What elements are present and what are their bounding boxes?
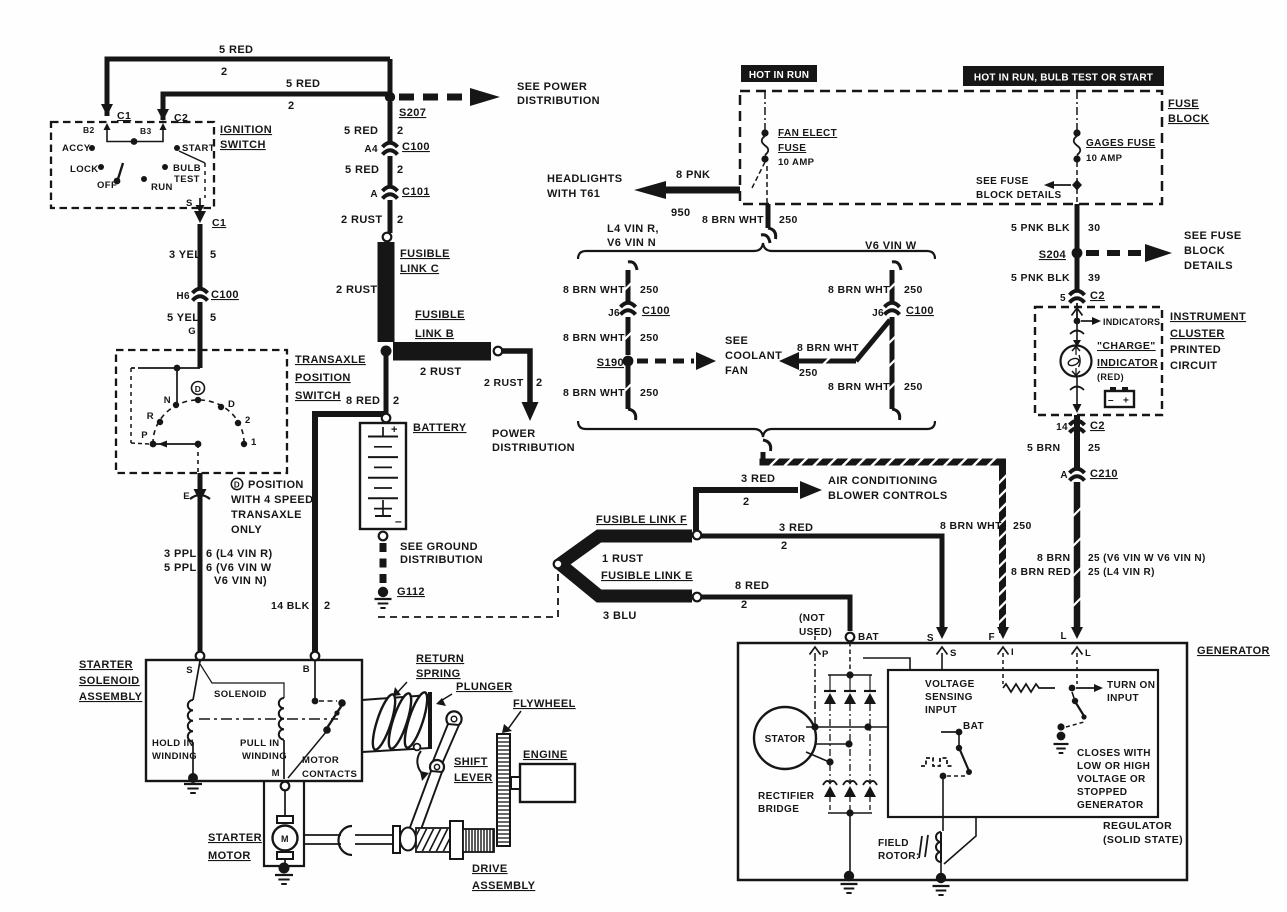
rectifier diodes bottom row [823,781,837,785]
arrow AC blower [800,481,822,499]
svg-text:BLOCK DETAILS: BLOCK DETAILS [976,190,1062,201]
svg-text:RETURN: RETURN [416,653,464,665]
connector 14 C2 [1070,421,1085,425]
svg-text:BRIDGE: BRIDGE [758,804,799,815]
svg-text:+: + [1123,396,1129,407]
tag HOT IN RUN [741,65,817,82]
svg-text:2: 2 [536,377,543,389]
svg-text:TRANSAXLE: TRANSAXLE [231,509,302,521]
svg-text:HEADLIGHTS: HEADLIGHTS [547,173,623,185]
svg-text:C210: C210 [1090,468,1118,480]
svg-text:I: I [1011,647,1014,658]
plunger [428,692,432,749]
svg-text:SPRING: SPRING [416,668,461,680]
svg-text:1: 1 [251,437,257,448]
ground G112 [378,587,388,597]
wire dashed to power distribution [399,94,468,101]
wire break hooks at fuse drop [761,235,770,243]
svg-text:FIELD: FIELD [878,838,909,849]
arrow headlights [634,181,666,199]
starter motor enclosure [264,781,304,866]
svg-text:H6: H6 [176,291,190,302]
svg-text:MOTOR: MOTOR [302,755,339,766]
rotor arc (dashed) [153,400,244,444]
tag HOT IN RUN BULB TEST OR START [963,66,1164,86]
wire B to contact [314,661,316,699]
position P [150,441,157,448]
svg-text:5 RED: 5 RED [286,78,320,90]
junction dot on B2-B3 bracket [131,138,138,145]
wire 5 RED from ignition C2 to S207 (second run) [163,94,390,120]
splice S204 [1072,248,1083,259]
wire 5 RED from ignition C1 to S207 (top run) [107,59,390,116]
wire 8 BRN WHT (S190 down) [626,366,631,409]
svg-text:SEE FUSE: SEE FUSE [976,176,1029,187]
svg-text:2 RUST: 2 RUST [341,214,383,226]
wire 5 RED (C100 to C101) [388,156,393,188]
rotation arrow at pivot [417,751,424,775]
wire F dashed to resistor [1002,653,1004,684]
svg-text:STOPPED: STOPPED [1077,787,1127,798]
wire to charge lamp [1076,321,1078,345]
svg-text:IGNITION: IGNITION [220,124,272,136]
svg-text:C1: C1 [117,110,131,122]
svg-text:2: 2 [397,164,404,176]
eyelet fusible link C top [383,233,392,242]
svg-text:B3: B3 [140,126,152,136]
svg-text:2 RUST: 2 RUST [420,366,462,378]
svg-text:250: 250 [640,284,659,296]
position N [173,402,179,408]
wire 8 BRN to generator L [1074,482,1081,632]
terminal M eyelet [281,782,290,791]
wire regulator second leg to field [944,817,976,864]
wire battery ground (dashed) [380,543,387,585]
svg-text:BLOCK: BLOCK [1168,113,1209,125]
svg-text:WITH T61: WITH T61 [547,188,600,200]
arrow turn on input [1076,687,1094,689]
splice S190 [623,356,634,367]
svg-text:FUSE: FUSE [778,143,806,154]
terminal F of generator [997,627,1009,639]
svg-text:MOTOR: MOTOR [208,850,251,862]
svg-text:8 BRN WHT: 8 BRN WHT [828,381,890,393]
wire motor to ground [284,859,286,864]
svg-text:DISTRIBUTION: DISTRIBUTION [517,95,600,107]
wire into cluster [1076,303,1078,318]
wire to coolant fan (V6) with left arrow [779,352,799,370]
eyelet battery positive [382,414,391,423]
svg-text:2: 2 [324,600,331,612]
svg-text:INDICATORS: INDICATORS [1103,317,1160,327]
svg-text:2: 2 [397,125,404,137]
svg-text:HOLD IN: HOLD IN [152,738,194,749]
svg-text:FUSIBLE LINK F: FUSIBLE LINK F [596,514,687,526]
resistor (regulator) [1003,684,1055,692]
charge indicator lamp [1061,346,1092,377]
svg-text:250: 250 [779,214,798,226]
svg-text:INPUT: INPUT [925,705,957,716]
battery icon (cluster) [1105,391,1134,407]
svg-text:5 YEL: 5 YEL [167,312,199,324]
fusible link E [560,564,692,596]
svg-text:3 PPL: 3 PPL [164,548,197,560]
svg-text:C101: C101 [402,186,430,198]
svg-text:VOLTAGE: VOLTAGE [925,679,975,690]
svg-text:SEE FUSE: SEE FUSE [1184,230,1242,242]
svg-text:FAN: FAN [725,365,748,377]
svg-text:ONLY: ONLY [231,524,262,536]
svg-text:CLOSES WITH: CLOSES WITH [1077,748,1151,759]
junction L-node [1069,685,1076,692]
svg-text:SOLENOID: SOLENOID [214,689,267,700]
connector H6 C100 [193,289,208,293]
wire 5 PNK BLK (fuse to S204) [1075,204,1080,248]
svg-text:2 RUST: 2 RUST [336,284,378,296]
battery [360,423,406,529]
svg-text:8 BRN WHT: 8 BRN WHT [563,332,625,344]
svg-text:INSTRUMENT: INSTRUMENT [1170,311,1246,323]
terminal BAT eyelet [846,633,855,642]
svg-text:REGULATOR: REGULATOR [1103,820,1172,832]
connector J6 C100 (right) [885,303,900,307]
svg-text:SEE GROUND: SEE GROUND [400,541,478,553]
svg-text:250: 250 [904,284,923,296]
svg-text:3 RED: 3 RED [779,522,813,534]
fusible link B [393,342,491,361]
wire segment S207 riser [388,59,393,97]
svg-text:N: N [164,395,171,406]
svg-text:5 RED: 5 RED [345,164,379,176]
svg-text:ASSEMBLY: ASSEMBLY [472,880,536,892]
svg-text:ROTOR:: ROTOR: [878,851,920,862]
svg-text:8 BRN WHT: 8 BRN WHT [563,387,625,399]
svg-text:ASSEMBLY: ASSEMBLY [79,691,143,703]
wire P dash-dot to stator bus [814,653,816,724]
starter motor M [277,816,293,823]
svg-text:RUN: RUN [151,182,173,193]
starter solenoid assembly box [146,660,362,781]
svg-text:STARTER: STARTER [79,659,133,671]
svg-text:8 RED: 8 RED [735,580,769,592]
svg-text:DISTRIBUTION: DISTRIBUTION [492,442,575,454]
svg-text:S: S [186,665,193,676]
wire sense step into regulator top [863,658,910,669]
connector C1 (ignition output) [194,211,206,223]
svg-text:VOLTAGE OR: VOLTAGE OR [1077,774,1146,785]
svg-text:S190: S190 [597,357,624,369]
svg-text:ACCY: ACCY [62,143,91,154]
svg-text:BAT: BAT [858,632,879,643]
svg-text:5 RED: 5 RED [344,125,378,137]
svg-text:WINDING: WINDING [152,751,197,762]
svg-text:LINK C: LINK C [400,263,439,275]
svg-text:G112: G112 [397,586,425,598]
svg-text:TEST: TEST [174,174,200,185]
svg-text:250: 250 [640,387,659,399]
wire wiper P to output [153,443,198,445]
ground hold-in winding [188,773,198,783]
wire START to S terminal [179,151,205,163]
wire 5 BRN (C2 to C210) [1074,415,1080,468]
svg-text:2: 2 [393,395,400,407]
svg-text:COOLANT: COOLANT [725,350,782,362]
position D selected (circled) [192,382,205,395]
svg-text:TURN ON: TURN ON [1107,680,1155,691]
svg-text:P: P [141,430,148,441]
svg-text:DRIVE: DRIVE [472,863,508,875]
svg-text:8 BRN RED: 8 BRN RED [1011,566,1071,578]
svg-text:GENERATOR: GENERATOR [1197,645,1270,657]
ground (field rotor) [936,873,946,883]
wire 8 RED (junction to battery) [384,351,389,413]
svg-text:A4: A4 [364,144,378,155]
svg-text:C100: C100 [211,289,239,301]
svg-text:M: M [272,768,280,779]
svg-text:C100: C100 [642,305,670,317]
motor contacts switch [319,700,337,702]
svg-text:STARTER: STARTER [208,832,262,844]
svg-text:+: + [391,424,398,436]
svg-text:2: 2 [741,599,748,611]
svg-text:RECTIFIER: RECTIFIER [758,791,815,802]
svg-text:J6: J6 [608,308,620,319]
svg-text:BATTERY: BATTERY [413,422,467,434]
svg-text:10 AMP: 10 AMP [1086,153,1123,164]
svg-text:INDICATOR: INDICATOR [1097,357,1158,369]
splice S207 [385,92,395,102]
connector A C101 [383,187,398,191]
svg-text:(SOLID STATE): (SOLID STATE) [1103,834,1183,846]
svg-text:BLOCK: BLOCK [1184,245,1225,257]
wire 3 PPL / 5 PPL (E to starter solenoid S) [198,473,203,652]
svg-text:8 BRN WHT: 8 BRN WHT [797,342,859,354]
svg-text:CLUSTER: CLUSTER [1170,328,1225,340]
svg-text:C1: C1 [212,217,226,229]
svg-text:S: S [186,198,193,209]
svg-text:M: M [281,834,289,844]
svg-text:C100: C100 [402,141,430,153]
svg-text:10 AMP: 10 AMP [778,157,815,168]
svg-text:L: L [1085,648,1091,659]
connector A C210 [1070,469,1085,473]
svg-text:8 PNK: 8 PNK [676,169,710,181]
eyelet link F output [693,531,702,540]
svg-text:SEE POWER: SEE POWER [517,81,587,93]
svg-text:S204: S204 [1039,249,1067,261]
rectifier phase columns dash-dot [829,675,831,691]
rectifier bottom bus [828,812,872,814]
shift lever [446,711,461,726]
svg-text:FUSE: FUSE [1168,98,1199,110]
svg-text:5 PPL: 5 PPL [164,562,197,574]
wire lamp to output [1076,377,1078,411]
wire 8 BRN WHT V6 branch upper [892,262,901,270]
svg-text:C2: C2 [1090,290,1105,302]
svg-text:C2: C2 [1090,420,1105,432]
eyelet link E output [693,593,702,602]
junction indicators [1074,318,1081,325]
svg-text:WINDING: WINDING [242,751,287,762]
svg-text:250: 250 [1013,520,1032,532]
svg-text:5 RED: 5 RED [219,44,253,56]
svg-text:WITH 4 SPEED: WITH 4 SPEED [231,494,313,506]
svg-text:P: P [822,649,829,660]
svg-text:LEVER: LEVER [454,772,493,784]
svg-text:A: A [1060,470,1068,481]
svg-text:250: 250 [640,332,659,344]
fuse block box [740,91,1162,204]
svg-text:L4 VIN R,: L4 VIN R, [607,223,659,235]
brace top [578,243,935,259]
wire L dashed down [1076,653,1078,684]
junction stator bus right [864,723,871,730]
wire 2 RUST (C101 to fusible link C) [388,200,393,233]
fusible link F [560,536,692,564]
svg-text:L: L [1060,631,1067,642]
svg-text:2: 2 [397,214,404,226]
mechanical link (dash-dot) [199,718,338,720]
svg-text:TRANSAXLE: TRANSAXLE [295,354,366,366]
contact arm to N [176,368,178,403]
svg-text:–: – [1108,395,1114,406]
wire 8 BRN WHT (C100 to S190) [626,317,631,355]
position 2 [235,420,241,426]
wire 8 BRN WHT 250 striped to generator F [761,452,766,459]
dashed link to fusible links E F [378,572,558,617]
svg-text:DETAILS: DETAILS [1184,260,1233,272]
eyelet battery negative [379,532,388,541]
svg-text:FUSIBLE: FUSIBLE [400,248,450,260]
svg-text:BLOWER CONTROLS: BLOWER CONTROLS [828,490,948,502]
fusible link C [378,242,395,342]
drive assembly [393,826,400,853]
transaxle position switch box [116,350,287,473]
svg-text:8 RED: 8 RED [346,395,380,407]
junction stator-P [811,723,818,730]
terminal S of generator [936,627,948,639]
svg-text:B2: B2 [83,125,95,135]
svg-text:E: E [183,491,190,502]
hold-in winding coil [193,661,200,700]
generator box [738,643,1187,880]
connector A4 C100 [383,143,398,147]
terminal B eyelet on solenoid [311,652,320,661]
terminal P arrow inside [810,647,821,655]
svg-text:2: 2 [245,415,251,426]
position R [157,419,163,425]
svg-text:A: A [370,189,378,200]
connector C1 (ignition) [101,104,113,116]
svg-text:FUSIBLE LINK E: FUSIBLE LINK E [601,570,693,582]
svg-text:S: S [950,648,957,659]
dashed frame inside switch [130,368,132,443]
wire battery to starter B (14 BLK) [315,414,386,652]
svg-text:PLUNGER: PLUNGER [456,681,513,693]
svg-text:25 (L4 VIN R): 25 (L4 VIN R) [1088,567,1155,578]
svg-text:2: 2 [743,496,750,508]
ground starter motor [279,863,290,874]
flywheel [497,734,510,846]
wire field coil to ground [940,862,942,874]
svg-text:PRINTED: PRINTED [1170,344,1221,356]
label D position note [231,478,242,489]
wire 8 BRN WHT below fan fuse [766,166,768,204]
eyelet fusible link B right [494,347,503,356]
svg-text:HOT IN RUN, BULB TEST OR START: HOT IN RUN, BULB TEST OR START [974,73,1153,84]
svg-text:14: 14 [1056,422,1068,433]
shaft segment 2 [355,834,393,836]
svg-text:ENGINE: ENGINE [523,749,568,761]
wire break hook below brace [763,440,771,451]
svg-text:8 BRN WHT: 8 BRN WHT [702,214,764,226]
svg-text:250: 250 [799,367,818,379]
svg-text:8 BRN: 8 BRN [1037,552,1071,564]
junction on input [174,365,181,372]
gages fuse [1076,91,1078,130]
svg-text:V6 VIN N: V6 VIN N [607,237,656,249]
svg-text:PULL IN: PULL IN [240,738,280,749]
svg-text:FLYWHEEL: FLYWHEEL [513,698,576,710]
wire bracket B2-B3 [107,137,163,142]
svg-text:5 PNK BLK: 5 PNK BLK [1011,272,1070,284]
svg-text:INPUT: INPUT [1107,693,1139,704]
svg-text:D: D [234,481,240,490]
stator phase lead 2 [816,743,846,745]
svg-text:5 PNK BLK: 5 PNK BLK [1011,222,1070,234]
svg-text:START: START [182,143,215,154]
svg-text:30: 30 [1088,222,1100,234]
switch closes with low or high voltage [1072,692,1074,698]
stator phase lead 3 [806,752,827,761]
connector C2 (ignition) [157,109,169,121]
wire 8 RED to generator BAT [701,597,850,631]
svg-text:C100: C100 [906,305,934,317]
position 1 [241,441,247,447]
rectifier top bus [828,674,872,676]
svg-text:SHIFT: SHIFT [454,756,488,768]
wire wiper output (dashed) [197,444,199,472]
wire M to motor [284,790,286,816]
brace bottom [578,421,935,437]
svg-text:S: S [927,633,934,644]
svg-text:FAN ELECT: FAN ELECT [778,128,837,139]
ground (generator case) [844,871,854,881]
svg-text:2: 2 [221,66,228,78]
pin E arrow [194,489,207,502]
svg-text:D: D [228,399,235,410]
wire switch input [140,367,200,369]
svg-text:2 RUST: 2 RUST [484,377,524,389]
svg-text:SENSING: SENSING [925,692,973,703]
junction fusible links B C [381,346,392,357]
wire regulator to field coil [942,779,944,831]
junction rotor arc top [195,397,201,403]
svg-text:3 YEL: 3 YEL [169,249,201,261]
terminal L of generator [1071,627,1083,639]
svg-text:(NOT: (NOT [799,613,825,624]
wire 3 YEL [198,224,203,290]
arrow S output [199,198,201,211]
svg-text:8 BRN WHT: 8 BRN WHT [563,284,625,296]
eyelet links common [554,560,563,569]
svg-text:V6 VIN N): V6 VIN N) [214,575,267,587]
pull-in winding coil [279,698,284,740]
svg-text:STATOR: STATOR [765,734,806,745]
svg-text:BAT: BAT [963,721,984,732]
wire 3 RED to AC blower controls [696,490,798,531]
svg-text:8 BRN WHT: 8 BRN WHT [940,520,1002,532]
